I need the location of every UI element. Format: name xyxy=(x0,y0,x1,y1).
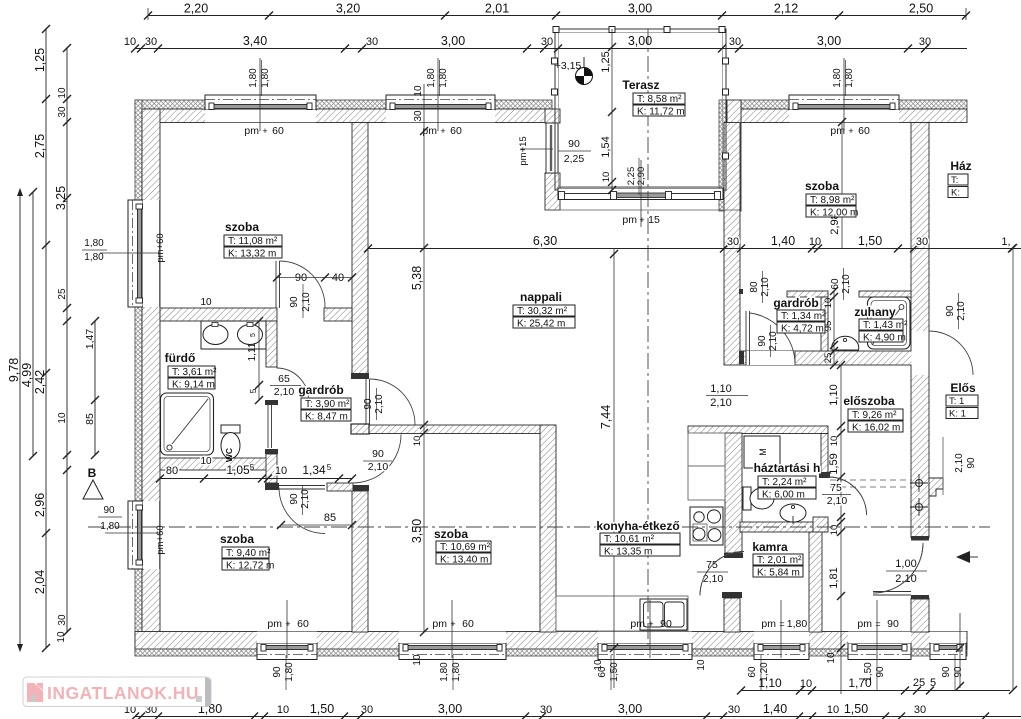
svg-text:2,20: 2,20 xyxy=(184,2,208,16)
door: gardrob2 (90/2,10) xyxy=(745,311,747,365)
svg-text:90: 90 xyxy=(272,666,283,678)
svg-text:K: 4,90 m: K: 4,90 m xyxy=(863,333,906,344)
svg-text:Ház: Ház xyxy=(950,159,971,173)
svg-text:2,75: 2,75 xyxy=(33,134,47,158)
svg-text:3,25: 3,25 xyxy=(54,186,68,210)
door arc redraw: kamra xyxy=(700,552,744,596)
door frame caps on W5 xyxy=(739,289,743,294)
svg-text:K: 8,47 m: K: 8,47 m xyxy=(305,412,348,423)
svg-text:4,99: 4,99 xyxy=(20,363,34,387)
svg-text:3,40: 3,40 xyxy=(243,34,267,48)
wall: top main band left of terrace xyxy=(135,109,552,123)
svg-text:90: 90 xyxy=(757,335,768,347)
svg-text:1,25: 1,25 xyxy=(600,51,612,72)
svg-text:=: = xyxy=(779,619,784,629)
svg-text:1,00: 1,00 xyxy=(895,558,916,570)
svg-text:2,96: 2,96 xyxy=(33,493,47,517)
zuhany: mosdo xyxy=(832,336,859,350)
svg-text:K: 4,72 m: K: 4,72 m xyxy=(781,324,824,335)
svg-text:kamra: kamra xyxy=(752,540,788,554)
door: furdo (65/2,10) xyxy=(277,368,309,400)
svg-text:3,00: 3,00 xyxy=(628,34,652,48)
wall H2: furdo/szoba BL fal xyxy=(160,458,268,470)
svg-text:B: B xyxy=(88,466,97,480)
svg-text:1,11: 1,11 xyxy=(247,342,258,361)
svg-text:10: 10 xyxy=(826,652,837,664)
svg-text:10: 10 xyxy=(412,436,423,447)
door opening: right wall entry gap xyxy=(911,541,929,596)
svg-text:1,05: 1,05 xyxy=(226,463,250,477)
svg-text:1,80: 1,80 xyxy=(787,618,808,630)
svg-text:T: 9,40 m²: T: 9,40 m² xyxy=(226,548,271,559)
wall: kamra nyugati fal alsó xyxy=(722,592,742,598)
svg-text:90: 90 xyxy=(945,305,956,317)
svg-text:fürdő: fürdő xyxy=(165,351,196,365)
svg-text:10: 10 xyxy=(800,678,812,690)
door: szoba BM from hall (90/2,10) xyxy=(353,435,402,484)
wall H1: szoba1/furdo fal xyxy=(160,308,277,321)
svg-text:90: 90 xyxy=(295,272,307,284)
wall W4: konyha/haztartasi fal xyxy=(725,433,742,553)
svg-text:10: 10 xyxy=(412,654,423,666)
svg-text:25: 25 xyxy=(57,288,68,300)
haztartasi: WC2 xyxy=(743,487,751,510)
dim 5,38 / 3,50 vertical xyxy=(423,84,425,632)
wall: left outer main xyxy=(142,109,160,649)
svg-text:10: 10 xyxy=(57,87,68,99)
svg-text:3,00: 3,00 xyxy=(628,2,652,16)
svg-text:10: 10 xyxy=(601,172,612,183)
dim row top outer xyxy=(148,15,966,17)
pm 15 label nappali portal xyxy=(640,160,642,227)
konyha: stove xyxy=(690,507,723,545)
terasz axis dash-dot xyxy=(647,29,649,648)
door frame caps: bejarati ajto xyxy=(911,536,929,541)
svg-text:2,10: 2,10 xyxy=(760,277,771,297)
furdo: shower tray xyxy=(161,393,214,455)
svg-text:10: 10 xyxy=(827,704,839,716)
svg-text:előszoba: előszoba xyxy=(843,394,895,408)
svg-text:60: 60 xyxy=(450,125,462,137)
svg-text:gardrób: gardrób xyxy=(773,296,818,310)
svg-text:30: 30 xyxy=(541,36,553,48)
svg-text:1,34: 1,34 xyxy=(302,463,326,477)
wall: gardrob2 keleti fal xyxy=(821,297,828,351)
svg-text:+: + xyxy=(262,126,267,136)
svg-text:2,10: 2,10 xyxy=(827,495,848,507)
svg-text:1,80: 1,80 xyxy=(84,238,104,249)
svg-text:1,81: 1,81 xyxy=(828,567,840,588)
svg-text:K: 13,35 m: K: 13,35 m xyxy=(604,547,652,558)
svg-text:90: 90 xyxy=(941,666,952,678)
windows in top wall xyxy=(205,95,316,110)
svg-text:30: 30 xyxy=(361,704,373,716)
svg-text:10: 10 xyxy=(696,659,707,671)
svg-text:K: 5,84 m: K: 5,84 m xyxy=(757,568,800,579)
wall: bottom insulation band xyxy=(135,649,967,656)
svg-text:+: + xyxy=(285,619,290,629)
wall W1: szoba1/nappali valaszfal xyxy=(352,123,368,377)
svg-text:pm: pm xyxy=(761,618,776,630)
svg-text:1,50: 1,50 xyxy=(858,234,882,248)
svg-text:2,10: 2,10 xyxy=(954,453,965,473)
svg-text:80: 80 xyxy=(749,281,760,293)
svg-text:K: 9,14 m: K: 9,14 m xyxy=(172,380,215,391)
haztartasi: mosdo xyxy=(780,504,806,522)
svg-text:60: 60 xyxy=(297,618,309,630)
svg-text:5,38: 5,38 xyxy=(410,266,424,290)
door: szoba BL (90/2,10) xyxy=(279,488,325,534)
right side marker triangle xyxy=(956,551,970,563)
svg-text:INGATLANOK.HU: INGATLANOK.HU xyxy=(47,683,199,703)
svg-text:30: 30 xyxy=(366,36,378,48)
svg-text:10: 10 xyxy=(200,297,212,308)
svg-text:10: 10 xyxy=(57,412,68,424)
dim chain right of haztartasi x841 xyxy=(840,365,842,694)
svg-text:10: 10 xyxy=(56,631,67,643)
bottom window axis labels xyxy=(286,600,288,658)
svg-text:K: 25,42 m: K: 25,42 m xyxy=(517,319,565,330)
svg-text:2,50: 2,50 xyxy=(909,2,933,16)
svg-text:T: 1,43 m²: T: 1,43 m² xyxy=(863,320,908,331)
svg-text:1,40: 1,40 xyxy=(771,234,795,248)
svg-text:60: 60 xyxy=(747,666,758,678)
svg-text:2,10: 2,10 xyxy=(768,331,779,351)
svg-text:90: 90 xyxy=(372,448,384,460)
level marker +3,15 xyxy=(583,57,585,76)
svg-text:90: 90 xyxy=(568,138,580,150)
svg-text:1,10: 1,10 xyxy=(828,384,840,405)
svg-text:T: 10,69 m²: T: 10,69 m² xyxy=(440,542,491,553)
wall: porch east / szoba felso nyugati fal xyxy=(719,100,727,211)
dim chain gardrob2/zuhany x834 xyxy=(833,291,835,365)
door: jobb oldali helyiseg (90/2,10) xyxy=(912,331,929,375)
window band: terasz/nappali portal xyxy=(558,188,723,200)
svg-text:60: 60 xyxy=(858,125,870,137)
svg-text:1,54: 1,54 xyxy=(600,136,612,157)
svg-text:T: 3,61 m²: T: 3,61 m² xyxy=(172,367,217,378)
wall: kamra keleti fal xyxy=(809,532,822,632)
wall W3: szoba BM/konyha fal xyxy=(540,425,556,632)
svg-text:1,80: 1,80 xyxy=(832,68,843,88)
terasz posts xyxy=(553,27,559,33)
door leaf: WC tolóajtó xyxy=(267,405,269,448)
svg-text:+: + xyxy=(440,126,445,136)
svg-text:90: 90 xyxy=(887,618,899,630)
svg-text:3,00: 3,00 xyxy=(441,34,465,48)
wall H3: gardrob/szoba BM fal xyxy=(352,425,556,434)
svg-text:90: 90 xyxy=(289,493,300,505)
svg-text:6,30: 6,30 xyxy=(533,234,557,248)
wall: porch west pier xyxy=(545,109,560,123)
zuhany: tray xyxy=(868,297,911,349)
svg-text:T: 8,58 m²: T: 8,58 m² xyxy=(637,94,682,105)
svg-text:30: 30 xyxy=(916,236,928,248)
svg-text:T: 1: T: 1 xyxy=(949,396,964,407)
svg-text:2,42: 2,42 xyxy=(33,370,47,394)
svg-text:5: 5 xyxy=(248,388,258,393)
svg-text:30: 30 xyxy=(145,36,157,48)
svg-text:2,01: 2,01 xyxy=(485,2,509,16)
svg-text:30: 30 xyxy=(729,36,741,48)
svg-text:+: + xyxy=(639,215,644,225)
svg-text:1,59: 1,59 xyxy=(828,453,840,474)
window: porch west facing terrace xyxy=(546,123,558,173)
wall H6: gardrob2/eloszoba fal xyxy=(740,351,925,365)
svg-text:1,80: 1,80 xyxy=(248,68,259,88)
svg-text:szoba: szoba xyxy=(805,179,839,193)
svg-text:K: 6,00 m: K: 6,00 m xyxy=(762,490,805,501)
svg-text:K: 1: K: 1 xyxy=(949,409,966,420)
svg-text:2,10: 2,10 xyxy=(368,461,389,473)
svg-text:Elős: Elős xyxy=(950,381,976,395)
svg-text:90: 90 xyxy=(103,505,115,516)
dim 2,98 vertical xyxy=(841,122,843,248)
svg-text:K: 16,02 m: K: 16,02 m xyxy=(852,423,900,434)
wall H4: haztartasi eszaki fal xyxy=(688,426,828,434)
svg-text:1,50: 1,50 xyxy=(844,702,868,716)
svg-text:3,20: 3,20 xyxy=(336,2,360,16)
door: bejarat (1,00/2,10) xyxy=(873,543,923,593)
konyha: cabinets xyxy=(688,433,725,466)
svg-text:10: 10 xyxy=(823,298,834,309)
svg-text:T: 10,61 m²: T: 10,61 m² xyxy=(604,534,655,545)
svg-text:10: 10 xyxy=(829,436,840,447)
wall: right wall upper xyxy=(911,123,929,538)
svg-text:1,: 1, xyxy=(1001,236,1010,248)
svg-text:1,80: 1,80 xyxy=(84,252,104,263)
svg-text:5: 5 xyxy=(930,677,936,689)
entry frame block on right wall xyxy=(929,478,943,496)
svg-text:15: 15 xyxy=(648,214,660,226)
svg-text:pm+60: pm+60 xyxy=(155,233,166,262)
svg-text:K: 11,72 m: K: 11,72 m xyxy=(637,107,685,118)
dim 1,11/5,5 furdo chain xyxy=(258,321,260,400)
svg-text:80: 80 xyxy=(166,465,178,477)
svg-text:szoba: szoba xyxy=(220,532,254,546)
door: haztartasi (75/2,10) xyxy=(829,477,867,515)
svg-text:3,00: 3,00 xyxy=(817,34,841,48)
svg-text:85: 85 xyxy=(84,413,96,425)
windows in left wall xyxy=(128,200,143,307)
svg-text:+: + xyxy=(648,619,653,629)
svg-text:2,25: 2,25 xyxy=(564,153,585,165)
svg-text:T: 11,08 m²: T: 11,08 m² xyxy=(228,236,278,247)
wall: bottom main band xyxy=(135,632,967,650)
svg-text:K: 12,00 m: K: 12,00 m xyxy=(810,208,858,219)
terasz inner vertical dims xyxy=(611,29,613,190)
svg-text:K:: K: xyxy=(951,188,960,199)
svg-text:T:: T: xyxy=(951,175,958,186)
svg-text:1,70: 1,70 xyxy=(848,676,872,690)
wall: nappali-eloszoba koz fal W5 xyxy=(724,123,740,366)
svg-text:konyha-étkező: konyha-étkező xyxy=(596,519,679,533)
dim left columns xyxy=(19,190,21,650)
svg-text:2,04: 2,04 xyxy=(33,570,47,594)
wall: haztartasi keleti fal xyxy=(821,434,828,473)
svg-text:2,90: 2,90 xyxy=(636,167,647,186)
terasz platform outline xyxy=(555,29,726,190)
svg-text:Terasz: Terasz xyxy=(622,78,659,92)
svg-text:szoba: szoba xyxy=(225,220,259,234)
svg-text:30: 30 xyxy=(914,704,926,716)
door: szoba1 (90/2,10) xyxy=(275,261,277,308)
dim row szoba BL top xyxy=(160,478,352,480)
svg-text:3,50: 3,50 xyxy=(410,519,424,543)
door arc redraw: haztartasi xyxy=(829,477,867,515)
konyha: counter + sink xyxy=(556,596,688,631)
svg-text:60: 60 xyxy=(272,125,284,137)
svg-text:2,10: 2,10 xyxy=(374,394,385,414)
svg-text:pm: pm xyxy=(622,214,637,226)
svg-text:pm: pm xyxy=(244,125,259,137)
door arc redraw: bejarat xyxy=(873,543,923,593)
svg-text:+: + xyxy=(848,126,853,136)
svg-text:2,10: 2,10 xyxy=(895,573,916,585)
wall: top main band right of terrace xyxy=(741,109,967,123)
svg-text:10: 10 xyxy=(124,36,136,48)
section line B-B xyxy=(88,526,990,528)
svg-text:10: 10 xyxy=(275,465,287,477)
dashed service line at entry xyxy=(830,479,912,481)
svg-text:M: M xyxy=(758,448,768,456)
svg-text:75: 75 xyxy=(830,482,842,494)
svg-text:1,10: 1,10 xyxy=(758,676,782,690)
svg-text:T: 2,24 m²: T: 2,24 m² xyxy=(762,477,807,488)
dim row bottom outer xyxy=(135,716,1021,718)
svg-text:2,10: 2,10 xyxy=(710,397,731,409)
svg-text:pm: pm xyxy=(432,618,447,630)
svg-text:2,10: 2,10 xyxy=(274,386,295,398)
svg-text:30: 30 xyxy=(57,614,68,626)
svg-text:25: 25 xyxy=(913,677,925,689)
svg-text:pm+15: pm+15 xyxy=(518,136,529,165)
svg-text:pm: pm xyxy=(630,618,645,630)
svg-text:szoba: szoba xyxy=(434,527,468,541)
svg-text:5: 5 xyxy=(250,333,257,337)
watermark: INGATLANOK.HU xyxy=(23,677,211,707)
svg-text:2,10: 2,10 xyxy=(703,573,724,585)
svg-text:85: 85 xyxy=(324,512,336,524)
wall H7b: zuhany eszaki fal xyxy=(859,291,911,297)
svg-text:háztartási h: háztartási h xyxy=(754,461,821,475)
door: kamra (75/2,10) xyxy=(700,552,744,596)
svg-text:5: 5 xyxy=(250,463,255,472)
svg-text:T: 3,90 m²: T: 3,90 m² xyxy=(305,399,350,410)
dim row bottom inner xyxy=(741,690,1010,692)
svg-text:9,78: 9,78 xyxy=(7,358,21,382)
svg-text:10: 10 xyxy=(277,704,289,716)
svg-text:10: 10 xyxy=(809,236,821,248)
svg-text:1,80: 1,80 xyxy=(439,662,450,682)
svg-text:10: 10 xyxy=(829,525,840,536)
svg-text:K: 13,32 m: K: 13,32 m xyxy=(228,249,276,260)
svg-text:1,80: 1,80 xyxy=(100,521,120,532)
wall H5: haztartasi/kamra fal xyxy=(740,522,828,532)
svg-text:90: 90 xyxy=(660,618,672,630)
svg-text:zuhany: zuhany xyxy=(854,305,896,319)
wall pier at szoba BL northeast xyxy=(327,483,353,491)
svg-text:10: 10 xyxy=(200,456,212,467)
wall W1 also: szoba BL/BM valaszfal xyxy=(352,491,368,632)
wall H7: gardrob2 eszaki fal xyxy=(787,291,828,297)
svg-text:30: 30 xyxy=(919,36,931,48)
svg-text:gardrób: gardrób xyxy=(298,383,343,397)
svg-text:60: 60 xyxy=(830,278,841,290)
svg-text:3,00: 3,00 xyxy=(618,702,642,716)
dim row y248 xyxy=(368,248,1021,250)
svg-text:pm: pm xyxy=(857,618,872,630)
svg-text:30: 30 xyxy=(57,106,68,118)
svg-text:pm: pm xyxy=(267,618,282,630)
nappali north face line xyxy=(545,209,740,211)
wall: right wall below entry door xyxy=(911,598,929,632)
svg-text:2,10: 2,10 xyxy=(841,274,852,294)
svg-text:30: 30 xyxy=(728,704,740,716)
svg-text:WC: WC xyxy=(224,448,234,462)
svg-text:pm: pm xyxy=(830,125,845,137)
svg-text:T: 30,32 m²: T: 30,32 m² xyxy=(517,306,568,317)
windows in bottom wall xyxy=(257,643,317,660)
dim 7,44 vertical xyxy=(613,248,615,688)
top window axis labels xyxy=(259,58,261,131)
svg-text:2,12: 2,12 xyxy=(774,2,798,16)
svg-text:T: 2,01 m²: T: 2,01 m² xyxy=(757,555,802,566)
wall: left outer insulation xyxy=(135,100,142,655)
svg-text:T: 9,26 m²: T: 9,26 m² xyxy=(852,410,897,421)
svg-text:K: 13,40 m: K: 13,40 m xyxy=(440,555,488,566)
svg-text:1,50: 1,50 xyxy=(310,702,334,716)
svg-text:65: 65 xyxy=(278,373,290,385)
svg-text:7,44: 7,44 xyxy=(599,405,613,429)
svg-text:10: 10 xyxy=(413,85,424,97)
svg-text:30: 30 xyxy=(413,110,424,122)
svg-text:60: 60 xyxy=(462,618,474,630)
furdo: WC xyxy=(221,425,240,433)
svg-text:=: = xyxy=(875,619,880,629)
svg-text:1,25: 1,25 xyxy=(33,48,47,72)
door: gardrob from nappali (90/2,10) xyxy=(365,379,367,425)
haztartasi: mosogep M xyxy=(744,436,780,468)
svg-text:40: 40 xyxy=(332,272,344,284)
wall: top insulation band right of terrace xyxy=(741,100,967,109)
wall: top insulation band left of terrace xyxy=(135,100,552,109)
svg-text:T: 1,34 m²: T: 1,34 m² xyxy=(781,311,826,322)
furdo: vanity counter with two sinks xyxy=(201,321,266,349)
svg-text:1,47: 1,47 xyxy=(84,329,96,350)
svg-text:1,10: 1,10 xyxy=(710,383,731,395)
svg-text:2,10: 2,10 xyxy=(300,489,311,509)
svg-text:3,00: 3,00 xyxy=(438,702,462,716)
svg-text:90: 90 xyxy=(289,296,300,308)
svg-text:+: + xyxy=(450,619,455,629)
wall W2: furdo/gardrob fal xyxy=(266,321,277,367)
svg-text:30: 30 xyxy=(540,704,552,716)
svg-text:10: 10 xyxy=(593,659,604,671)
dim row top inner xyxy=(135,48,967,50)
svg-text:+3,15: +3,15 xyxy=(555,60,582,72)
svg-text:5: 5 xyxy=(327,463,332,472)
svg-text:nappali: nappali xyxy=(520,290,562,304)
svg-text:90: 90 xyxy=(966,457,977,469)
svg-text:30: 30 xyxy=(727,236,739,248)
svg-text:T: 8,98 m²: T: 8,98 m² xyxy=(810,195,855,206)
svg-text:90: 90 xyxy=(363,398,374,410)
svg-text:1,80: 1,80 xyxy=(426,68,437,88)
svg-text:25: 25 xyxy=(823,353,834,364)
right edge dim lines xyxy=(959,613,961,688)
svg-text:2,10: 2,10 xyxy=(956,301,967,321)
